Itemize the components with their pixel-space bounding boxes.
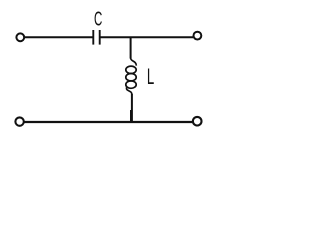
terminal bottom-right [193, 117, 202, 126]
inductor L1 loop 2 [126, 74, 136, 81]
capacitor C1 left plate [92, 30, 94, 45]
wire top-left segment [24, 36, 94, 38]
label L [147, 65, 154, 89]
inductor L1 loop 1 [126, 66, 136, 73]
label C [94, 7, 102, 30]
terminal top-right [194, 32, 202, 40]
terminal top-left [16, 33, 24, 41]
node T junction top [130, 37, 132, 58]
svg-text:C: C [94, 7, 102, 30]
inductor L1 entry curve [131, 58, 137, 66]
wire top-right segment [100, 36, 193, 38]
inductor L1 loop 3 [126, 81, 136, 88]
inductor L1 exit curve [126, 87, 131, 94]
capacitor C1 right plate [99, 30, 101, 45]
terminal bottom-left [15, 117, 23, 125]
wire inductor bottom [130, 94, 133, 122]
svg-text:L: L [147, 65, 154, 89]
wire bottom [25, 121, 193, 123]
